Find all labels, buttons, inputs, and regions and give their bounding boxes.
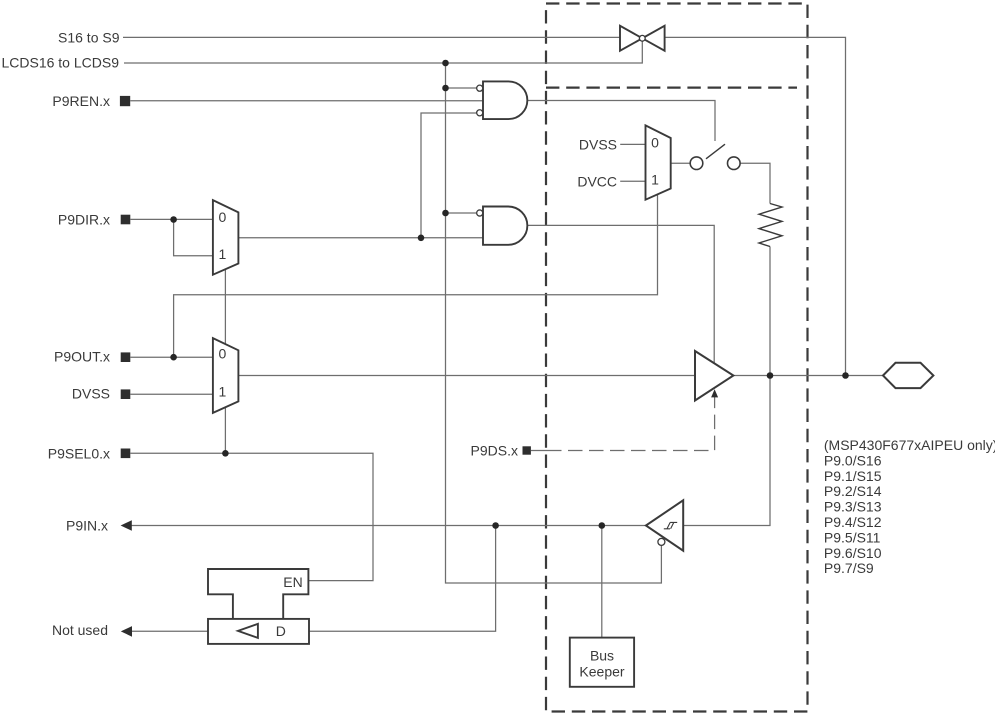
terminal square P9DS.x [523,446,531,454]
junction bus keeper tap [599,522,606,529]
arrowhead P9DS (up) [711,389,718,397]
wire LCDS16 line with switch control [124,42,642,64]
terminal square P9OUT.x [121,352,131,362]
wire gate2 output to output-buffer enable [527,225,714,363]
wire P9DIR.x input [130,218,213,220]
gate U1: 3-input AND (REN logic) [483,81,527,119]
svg-text:DVSS: DVSS [72,386,110,402]
junction gate2 top input [442,210,449,217]
svg-text:0: 0 [651,135,659,151]
note (MSP430F677xAIPEU only) and pin list [824,437,995,576]
mux2 (P9OUT) trapezoid [213,338,239,413]
wire DVSS input to mux2 [130,393,213,395]
junction P9IN / latch D [492,522,499,529]
wire resistor to pad line [769,247,771,376]
svg-text:D: D [276,623,286,639]
junction pad / S16 column [842,372,849,379]
svg-text:EN: EN [283,574,302,590]
svg-text:P9OUT.x: P9OUT.x [54,349,110,365]
Schmitt hysteresis symbol [664,522,677,528]
terminal square P9REN.x [120,96,130,106]
latch EN tab outline [208,569,308,619]
svg-text:P9.0/S16: P9.0/S16 [824,452,882,468]
junction pad / resistor / input buffer [767,372,774,379]
svg-text:Not used: Not used [52,622,108,638]
switch contact circle right [728,157,741,170]
latch clock triangle [238,624,258,638]
output buffer triangle [695,351,733,401]
svg-text:DVSS: DVSS [579,136,617,152]
svg-text:P9.1/S15: P9.1/S15 [824,468,882,484]
wire P9OUT branch to mux3 select [174,195,658,358]
svg-text:Keeper: Keeper [579,664,624,680]
pad hexagon P9.x [883,363,933,388]
svg-text:0: 0 [219,346,227,362]
svg-text:P9SEL0.x: P9SEL0.x [48,445,110,461]
switch contact circle left [690,157,703,170]
wire DVCC to mux3 input 1 [620,180,645,182]
wire switch to resistor [740,163,770,203]
svg-text:P9.6/S10: P9.6/S10 [824,545,882,561]
junction P9DIR input branch [170,216,177,223]
wire P9DS dashed to output buffer enable arrow [547,396,715,451]
gate U2 input bubble [477,210,483,216]
svg-text:P9.3/S13: P9.3/S13 [824,499,882,515]
svg-text:P9REN.x: P9REN.x [52,93,110,109]
wire mux2 output to output buffer [238,375,695,377]
svg-text:P9.5/S11: P9.5/S11 [824,529,881,545]
wire gate2 top input [446,212,477,214]
svg-text:LCDS16 to LCDS9: LCDS16 to LCDS9 [1,55,119,71]
arrowhead P9IN.x (left) [121,520,132,531]
bus keeper box [570,638,634,687]
junction P9SEL0 select branch [222,450,229,457]
wire P9DS.x solid stub [531,450,547,452]
wire S16 left segment [123,36,620,38]
gate U1 input bubble top [477,85,483,91]
svg-text:1: 1 [219,246,227,262]
wire output buffer to pad [733,375,883,377]
svg-text:P9DIR.x: P9DIR.x [58,212,110,228]
svg-text:P9.7/S9: P9.7/S9 [824,560,874,576]
mux3 (DVSS/DVCC pull select) trapezoid [646,125,671,199]
outer dashed module box [546,4,808,712]
svg-text:0: 0 [219,209,227,225]
terminal square DVSS [121,389,131,399]
terminal square P9SEL0.x [121,449,131,459]
wire mux1 output to gate2 [238,237,483,239]
svg-text:S16 to S9: S16 to S9 [58,30,120,46]
wire bus keeper connection [601,526,603,638]
wire mux2 select to P9SEL0 line [224,407,226,453]
wire P9IN branch to latch D input [309,526,496,632]
svg-text:P9.4/S12: P9.4/S12 [824,514,882,530]
svg-text:P9IN.x: P9IN.x [66,518,108,534]
wire P9REN.x to gate1 middle input [130,100,483,102]
wire DVSS to mux3 input 0 [620,143,645,145]
input buffer enable bubble [658,538,665,545]
wire P9SEL0.x to latch EN [130,453,373,580]
wire pad line to input buffer [683,376,770,526]
latch D box [208,619,309,644]
wire P9DIR branch to mux1 input 1 [174,220,213,256]
svg-text:1: 1 [219,384,227,400]
junction P9OUT input branch [170,354,177,361]
switch lever [706,144,725,159]
mux1 (P9DIR) trapezoid [213,200,239,275]
wire gate1 bottom input from DIR line [421,113,476,238]
analog switch (LCD segment) left triangle [620,26,642,51]
gate U2: 2-input AND (driver enable) [483,207,527,245]
junction DIR line branch [418,235,425,242]
terminal square P9DIR.x [121,215,131,225]
gate U1 input bubble bottom [477,110,483,116]
svg-text:P9.2/S14: P9.2/S14 [824,483,882,499]
wire LCDS branch vertical to input-buffer enable [446,63,662,583]
analog switch right triangle [642,26,664,51]
wire latch output Not used [132,630,209,632]
wire S16 right segment to pad column [665,37,846,375]
wire gate1 top input [446,87,477,89]
svg-text:P9DS.x: P9DS.x [471,443,518,459]
svg-text:1: 1 [651,171,659,187]
svg-text:DVCC: DVCC [577,173,617,189]
arrowhead Not used (left) [121,626,132,637]
wire input buffer output to P9IN.x [131,525,646,527]
wire P9OUT.x input [130,356,213,358]
svg-text:(MSP430F677xAIPEU only): (MSP430F677xAIPEU only) [824,437,995,453]
input Schmitt buffer triangle [646,500,683,550]
svg-text:Bus: Bus [590,648,614,664]
wire mux3 output to switch [671,162,691,164]
wire gate1 output to switch control [527,101,715,142]
analog switch center circle [639,35,645,41]
junction LCDS/switch control [442,60,449,67]
resistor R (pullup/pulldown) zigzag [759,204,782,247]
wire mux1 select to mux2 select [224,270,226,345]
junction gate1 top input [442,85,449,92]
inner dashed pad-logic boundary [546,86,797,88]
